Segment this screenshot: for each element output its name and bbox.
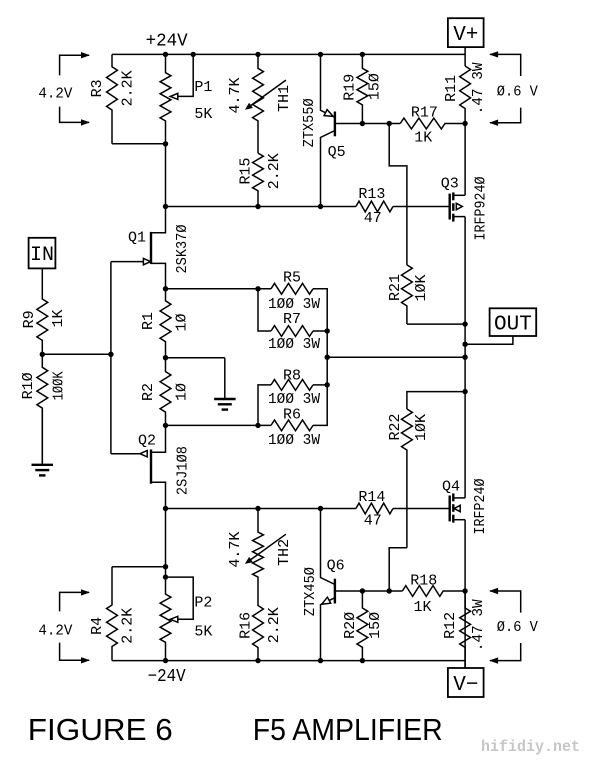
svg-text:R1Ø: R1Ø [20, 372, 37, 399]
transistor Q2 channel bar [150, 450, 152, 484]
svg-text:Q5: Q5 [328, 144, 346, 161]
svg-text:IN: IN [30, 244, 54, 267]
bracket 0.6V bottom top arrowhead [489, 588, 498, 594]
junction R20 bottom rail [360, 658, 365, 663]
svg-text:4.7K: 4.7K [227, 532, 244, 568]
label R4 value 2.2K [120, 608, 137, 644]
svg-text:R15: R15 [237, 157, 254, 184]
label P1 value 5K [194, 106, 212, 123]
transistor Q2 gate arrow [140, 451, 147, 457]
label R3 [89, 79, 106, 97]
svg-text:1Ø: 1Ø [174, 313, 191, 331]
junction R9 R10 [40, 352, 45, 357]
label Q2 type 2SJ108 [174, 446, 191, 495]
label R1 value 10 [174, 313, 191, 331]
svg-text:1Ø: 1Ø [174, 383, 191, 401]
transistor Q6 emitter [321, 598, 335, 661]
transistor Q2 gate wire [111, 453, 140, 455]
svg-text:R9: R9 [21, 310, 38, 328]
svg-text:2.2K: 2.2K [266, 607, 283, 643]
wire R4 top to P2 [112, 566, 166, 568]
bracket 4.2V bottom arrowhead [81, 119, 90, 125]
transistor Q5 emitter arrow [324, 110, 333, 117]
label +24V [146, 32, 188, 52]
label Q3 type IRFP9240 [472, 177, 489, 241]
svg-text:1ØK: 1ØK [413, 274, 430, 301]
wire P1 wiper [178, 54, 193, 96]
wire gate bus [110, 262, 112, 454]
resistor R22 [402, 409, 413, 548]
label -24V [148, 667, 186, 687]
label R17 value 1K [414, 129, 432, 146]
svg-text:F5 AMPLIFIER: F5 AMPLIFIER [253, 712, 443, 747]
wire R22 bottom dogleg [389, 548, 407, 591]
wire input line [42, 353, 111, 355]
label R2 [140, 383, 157, 401]
svg-text:R16: R16 [237, 612, 254, 639]
transistor Q4 body arrow [454, 505, 460, 511]
thermistor TH2 [253, 509, 264, 606]
label R8 [283, 367, 301, 384]
label TH2 [276, 539, 293, 566]
resistor R8 [271, 380, 313, 391]
label R13 [358, 186, 385, 203]
label R6 [283, 406, 301, 423]
label R15 value 2.2K [266, 153, 283, 189]
wire R6 right lead [313, 357, 327, 425]
watermark hifidiy.net [481, 738, 580, 756]
resistor R13 [356, 201, 393, 212]
transistor Q4 channel mid [452, 504, 454, 512]
svg-text:2.2K: 2.2K [266, 153, 283, 189]
resistor R12 [460, 591, 471, 668]
svg-text:Q4: Q4 [442, 478, 460, 495]
label Q6 [327, 557, 345, 574]
transistor Q1 gate wire [111, 261, 143, 263]
label R6 value 100 3W [268, 432, 320, 449]
transistor Q3 channel bottom [452, 214, 454, 222]
thermistor TH1 [253, 54, 264, 153]
transistor Q4 drain stub [453, 497, 465, 499]
junction P2 bottom [163, 658, 168, 663]
label R15 [237, 157, 254, 184]
svg-text:P1: P1 [194, 79, 212, 96]
terminal V+ [448, 18, 484, 47]
resistor R7 [271, 326, 313, 337]
label R8 value 100 3W [268, 391, 320, 408]
wire R7 left lead [258, 289, 271, 331]
svg-text:R2: R2 [140, 383, 157, 401]
title F5 AMPLIFIER [253, 712, 443, 747]
svg-text:1K: 1K [413, 599, 431, 616]
junction R6 left [255, 423, 260, 428]
arrow P2 wiper [170, 616, 178, 622]
bracket 4.2V bottom bottom arrowhead [81, 657, 90, 663]
wire R14 to Q4 gate [393, 508, 450, 510]
label R16 value 2.2K [266, 607, 283, 643]
svg-text:R17: R17 [411, 104, 438, 121]
svg-text:R11: R11 [443, 75, 460, 102]
label R9 [21, 310, 38, 328]
svg-text:Q1: Q1 [128, 229, 146, 246]
transistor Q4 gate bar [449, 496, 451, 522]
svg-text:R8: R8 [283, 367, 301, 384]
thermistor TH1 arrow line [248, 80, 286, 107]
svg-text:4.7K: 4.7K [227, 77, 244, 113]
ground middle [214, 358, 236, 410]
junction R17 right [462, 121, 467, 126]
wire R5 right lead [313, 289, 327, 357]
wire Q4 source to V- rail [464, 520, 466, 668]
label R3 value 2.2K [120, 70, 137, 106]
label Q1 type 2SK370 [174, 225, 191, 274]
junction TH1 top [255, 52, 260, 57]
svg-text:15Ø: 15Ø [367, 612, 384, 639]
svg-text:ZTX45Ø: ZTX45Ø [302, 567, 319, 616]
label Q4 type IRFP240 [472, 479, 489, 535]
resistor R17 [400, 118, 465, 129]
junction P1 wiper top [191, 52, 196, 57]
potentiometer P1 [160, 54, 171, 206]
junction R15 bottom [255, 204, 260, 209]
label 0.6V bottom [497, 619, 538, 636]
svg-text:1ØK: 1ØK [413, 414, 430, 441]
junction Q2 source [163, 423, 168, 428]
transistor Q3 channel top [452, 192, 454, 200]
svg-text:4.2V: 4.2V [38, 622, 72, 639]
junction center node [325, 355, 330, 360]
label R16 [237, 612, 254, 639]
transistor Q3 channel mid [452, 203, 454, 211]
svg-text:R14: R14 [358, 489, 385, 506]
resistor R21 [402, 265, 413, 324]
svg-text:R1: R1 [140, 312, 157, 330]
label 0.6V top [497, 84, 538, 101]
label R21 value 10K [413, 274, 430, 301]
junction R20 bottom [360, 588, 365, 593]
svg-text:V−: V− [453, 674, 478, 697]
svg-text:1ØØK: 1ØØK [50, 371, 67, 400]
junction P1 top [163, 52, 168, 57]
junction Q1 source [163, 286, 168, 291]
junction Q6 emitter bottom [318, 658, 323, 663]
svg-text:1ØØ 3W: 1ØØ 3W [268, 391, 320, 408]
label R10 [20, 372, 37, 399]
junction R21 tap [387, 121, 392, 126]
bracket 0.6V top arrow line [490, 54, 521, 76]
label R19 [342, 74, 359, 101]
label R22 value 10K [413, 414, 430, 441]
svg-text:1ØØ 3W: 1ØØ 3W [268, 336, 320, 353]
resistor R3 [107, 54, 118, 143]
transistor Q4 channel top [452, 493, 454, 501]
svg-text:Ø.6 V: Ø.6 V [497, 619, 538, 636]
transistor Q3 body arrow [456, 203, 462, 209]
label R10 value 100K [50, 371, 67, 400]
wire R14 line left [166, 508, 356, 510]
label Q4 [442, 478, 460, 495]
junction R4 top [163, 564, 168, 569]
label R13 value 47 [364, 210, 382, 227]
junction Q5 emitter top [318, 52, 323, 57]
transistor Q1 gate arrow [143, 258, 150, 264]
bracket 4.2V top arrowhead [81, 52, 90, 58]
label TH1 value 4.7K [227, 77, 244, 113]
transistor Q4 source stub [453, 519, 465, 521]
svg-text:47: 47 [364, 210, 382, 227]
svg-text:P2: P2 [194, 595, 212, 612]
junction gate bus input [108, 352, 113, 357]
label R7 [283, 311, 301, 328]
svg-text:R21: R21 [387, 274, 404, 301]
wire Q5 base line [335, 123, 400, 125]
junction R7 right [325, 328, 330, 333]
label R11 value .47 3W [470, 62, 487, 114]
svg-text:OUT: OUT [494, 314, 532, 337]
label TH2 value 4.7K [227, 532, 244, 568]
wire R8 right lead [313, 384, 327, 386]
wire center node to rail [327, 356, 465, 358]
label R21 [387, 274, 404, 301]
bracket 4.2V top arrow line [60, 55, 89, 75]
svg-text:2SJ1Ø8: 2SJ1Ø8 [174, 446, 191, 495]
transistor Q3 drain stub [453, 194, 465, 196]
junction R19 bottom [360, 121, 365, 126]
junction R22 tap [387, 588, 392, 593]
thermistor TH2 arrow line [248, 534, 286, 561]
svg-text:2SK37Ø: 2SK37Ø [174, 225, 191, 274]
svg-text:R12: R12 [442, 612, 459, 639]
label R20 value 150 [367, 612, 384, 639]
transistor Q6 collector [321, 509, 335, 585]
svg-text:−24V: −24V [148, 667, 186, 687]
bracket 0.6V bottom arrow line [490, 108, 521, 123]
resistor R4 [107, 567, 118, 661]
label Q2 [138, 432, 156, 449]
svg-text:R3: R3 [89, 79, 106, 97]
resistor R10 [37, 354, 48, 465]
label P1 [194, 79, 212, 96]
resistor R18 [402, 586, 465, 597]
junction TH2 top [255, 506, 260, 511]
bracket 0.6V top arrowhead [489, 51, 498, 57]
transistor Q6 emitter arrow [322, 597, 331, 604]
label R1 [140, 312, 157, 330]
wire R8 left lead [258, 385, 271, 426]
thermistor TH1 arrowhead [245, 103, 253, 110]
svg-text:V+: V+ [453, 24, 478, 47]
label Q1 [128, 229, 146, 246]
potentiometer P2 [160, 567, 171, 661]
junction R21 out [462, 321, 467, 326]
svg-text:R4: R4 [89, 617, 106, 635]
svg-text:Q6: Q6 [327, 557, 345, 574]
svg-text:2.2K: 2.2K [120, 608, 137, 644]
bracket 4.2V bottom top arrowhead [81, 589, 90, 595]
wire Q2 source to pair [166, 424, 272, 426]
terminal V- [448, 668, 484, 697]
resistor R15 [253, 153, 264, 206]
transistor Q1 drain [151, 207, 166, 233]
label R14 [358, 489, 385, 506]
label R12 value .47 3W [470, 599, 487, 651]
transistor Q4 channel bottom [452, 515, 454, 523]
bracket 0.6V bottom top arrow line [490, 591, 521, 613]
transistor Q2 drain [151, 482, 166, 566]
junction R16 bottom [255, 658, 260, 663]
svg-text:1K: 1K [414, 129, 432, 146]
bracket 4.2V bottom bottom arrow line [60, 643, 89, 661]
svg-text:R13: R13 [358, 186, 385, 203]
svg-text:hifidiy.net: hifidiy.net [481, 738, 580, 756]
svg-text:Ø.6 V: Ø.6 V [497, 84, 538, 101]
transistor Q3 gate bar [449, 194, 451, 220]
svg-text:ZTX55Ø: ZTX55Ø [301, 98, 318, 147]
resistor R9 [37, 268, 48, 354]
transistor Q1 channel bar [150, 232, 152, 264]
transistor Q1 source [151, 263, 166, 288]
label R9 value 1K [50, 309, 67, 327]
transistor Q6 base bar [334, 579, 336, 604]
junction Q5 collector [318, 204, 323, 209]
transistor Q5 emitter [321, 54, 335, 117]
junction R22 out [462, 389, 467, 394]
wire +24V rail [112, 53, 465, 55]
label R5 value 100 3W [268, 296, 320, 313]
transistor Q5 base bar [334, 112, 336, 137]
svg-text:+24V: +24V [146, 32, 188, 52]
junction output node [462, 355, 467, 360]
label R17 [411, 104, 438, 121]
svg-text:R7: R7 [283, 311, 301, 328]
junction P1 bottom node [163, 204, 168, 209]
svg-text:TH1: TH1 [276, 85, 293, 112]
label R18 [410, 572, 437, 589]
transistor Q3 source stub [453, 216, 465, 218]
svg-text:FIGURE 6: FIGURE 6 [28, 712, 173, 747]
resistor R1 [160, 289, 171, 358]
svg-text:IRFP924Ø: IRFP924Ø [472, 177, 489, 241]
resistor R14 [356, 503, 393, 514]
label R2 value 10 [174, 383, 191, 401]
label P2 [194, 595, 212, 612]
wire Q6 base line [335, 590, 403, 592]
thermistor TH2 arrowhead [245, 557, 253, 564]
junction R8 right [325, 382, 330, 387]
resistor R19 [357, 54, 368, 123]
svg-text:R2Ø: R2Ø [342, 612, 359, 639]
terminal OUT [490, 308, 537, 336]
resistor R2 [160, 358, 171, 426]
wire R21 top dogleg [389, 124, 407, 265]
resistor R20 [357, 591, 368, 661]
label P2 value 5K [194, 623, 212, 640]
junction R5 left [255, 286, 260, 291]
svg-text:2.2K: 2.2K [120, 70, 137, 106]
wire R22 top lead [407, 392, 465, 409]
svg-text:R18: R18 [410, 572, 437, 589]
bracket 4.2V bottom top arrow line [60, 592, 89, 611]
wire R13 to Q3 gate [393, 206, 450, 208]
bracket 0.6V bottom bottom arrowhead [489, 657, 498, 663]
wire P2 wiper [166, 577, 194, 619]
label R11 [443, 75, 460, 102]
junction P2 wiper tap [163, 574, 168, 579]
bracket 0.6V bottom arrowhead [489, 120, 498, 126]
terminal IN [29, 238, 56, 269]
label R4 [89, 617, 106, 635]
svg-text:R5: R5 [283, 270, 301, 287]
svg-text:47: 47 [364, 513, 382, 530]
svg-text:TH2: TH2 [276, 539, 293, 566]
junction R19 top [360, 52, 365, 57]
wire to middle ground [166, 357, 225, 359]
wire V+ to rail [464, 47, 466, 66]
wire R3 bottom to P1 [112, 143, 166, 145]
bracket 0.6V bottom bottom arrow line [490, 643, 521, 661]
wire V+ rail to Q3 drain [464, 124, 466, 196]
label Q5 type ZTX550 [301, 98, 318, 147]
wire -24V rail [112, 660, 465, 662]
label Q3 [441, 175, 459, 192]
wire Q3 source to output node [464, 217, 466, 498]
arrow P1 wiper [170, 93, 178, 99]
label R7 value 100 3W [268, 336, 320, 353]
svg-text:15Ø: 15Ø [366, 73, 383, 100]
svg-text:R6: R6 [283, 406, 301, 423]
resistor R16 [253, 605, 264, 661]
ground below R10 [32, 408, 54, 475]
label 4.2V top [38, 86, 72, 103]
label TH1 [276, 85, 293, 112]
title FIGURE 6 [28, 712, 173, 747]
svg-text:.47 3W: .47 3W [470, 599, 487, 651]
junction R18 right [462, 588, 467, 593]
svg-text:.47 3W: .47 3W [470, 62, 487, 114]
junction OUT lead [462, 342, 467, 347]
svg-text:Q2: Q2 [138, 432, 156, 449]
transistor Q5 collector [321, 131, 335, 207]
svg-text:R19: R19 [342, 74, 359, 101]
label R14 value 47 [364, 513, 382, 530]
label R5 [283, 270, 301, 287]
svg-text:5K: 5K [194, 106, 212, 123]
junction Q2 drain node [163, 506, 168, 511]
svg-text:5K: 5K [194, 623, 212, 640]
bracket 4.2V bottom arrow line [60, 107, 89, 123]
svg-text:4.2V: 4.2V [38, 86, 72, 103]
resistor R11 [460, 66, 471, 124]
wire R7 right lead [313, 330, 327, 332]
junction R3 bottom [163, 141, 168, 146]
label Q6 type ZTX450 [302, 567, 319, 616]
label R22 [387, 413, 404, 440]
junction Q6 collector [318, 506, 323, 511]
label R12 [442, 612, 459, 639]
resistor R6 [271, 420, 313, 431]
resistor R5 [271, 283, 313, 294]
svg-text:Q3: Q3 [441, 175, 459, 192]
label Q5 [328, 144, 346, 161]
wire OUT lead [465, 336, 513, 344]
svg-text:IRFP24Ø: IRFP24Ø [472, 479, 489, 535]
wire Q1 source to pair [166, 288, 272, 290]
svg-text:R22: R22 [387, 413, 404, 440]
transistor Q2 source [151, 425, 166, 452]
label 4.2V bottom [38, 622, 72, 639]
wire R13 line left [166, 206, 356, 208]
svg-text:1ØØ 3W: 1ØØ 3W [268, 432, 320, 449]
